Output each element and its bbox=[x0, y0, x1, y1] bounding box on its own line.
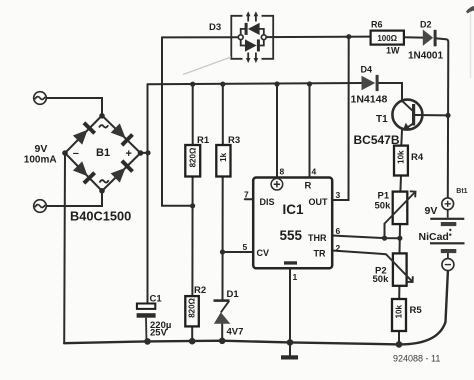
svg-text:9V: 9V bbox=[425, 205, 438, 217]
potentiometer P1 bbox=[393, 192, 408, 225]
D3 upper branch wires bbox=[241, 29, 264, 35]
D3 upper diode (points left) bbox=[245, 23, 248, 35]
svg-text:9V: 9V bbox=[35, 143, 48, 155]
AC source 1 bbox=[34, 92, 47, 105]
wire R1 top bbox=[192, 84, 194, 145]
wire bridge plus down to C1 bbox=[147, 84, 149, 303]
wire D1 bottom to ground rail bbox=[221, 324, 223, 341]
node top rail / pin3 junction bbox=[346, 34, 351, 39]
zener diode D1 bbox=[214, 299, 231, 324]
svg-text:1N4148: 1N4148 bbox=[351, 94, 388, 106]
wire ground bottom rail bbox=[64, 271, 448, 345]
svg-text:820Ω: 820Ω bbox=[188, 297, 197, 317]
wire bridge plus vertex to junction bbox=[141, 152, 149, 154]
svg-text:1: 1 bbox=[293, 272, 298, 282]
node V+ rail pin8 bbox=[274, 81, 279, 86]
wire 555 pin 4 bbox=[309, 84, 311, 178]
wire R3 bottom to pin5 node and D1 bbox=[222, 177, 224, 300]
wire D2 to battery corner bbox=[436, 38, 448, 198]
svg-text:820Ω: 820Ω bbox=[188, 147, 197, 167]
svg-text:D2: D2 bbox=[420, 20, 432, 30]
D3 box outline bbox=[231, 16, 273, 59]
node bridge junction bbox=[145, 150, 150, 155]
diode D4 bbox=[362, 76, 376, 90]
node rail R5 bbox=[396, 341, 403, 348]
wire ground stub below rail bbox=[289, 342, 291, 355]
svg-text:+: + bbox=[126, 148, 132, 160]
wire R5 bottom to ground rail bbox=[398, 331, 400, 344]
svg-text:924088 - 11: 924088 - 11 bbox=[393, 354, 440, 364]
wire D3 to R6 junction bbox=[264, 36, 371, 39]
battery long plate 1 bbox=[430, 218, 464, 220]
wire vertical from top rail down to R1/R2 node bbox=[162, 37, 193, 205]
wire 555 pin 3 out up to R6 junction bbox=[332, 37, 349, 200]
svg-text:DIS: DIS bbox=[260, 197, 275, 207]
diode D2 bbox=[423, 30, 433, 46]
svg-text:25V: 25V bbox=[150, 328, 168, 339]
scan scratch near D3 bbox=[183, 57, 231, 75]
wire top rail from node to D3 bbox=[162, 36, 241, 38]
ground bar inside pin 1 bbox=[284, 261, 297, 264]
svg-text:THR: THR bbox=[308, 233, 327, 243]
wire R4 bottom to P1 top bbox=[399, 176, 402, 192]
svg-text:D3: D3 bbox=[209, 22, 221, 33]
svg-text:100Ω: 100Ω bbox=[377, 34, 397, 43]
wire R1 bottom to R2 top bbox=[191, 177, 193, 297]
svg-text:4: 4 bbox=[312, 167, 317, 177]
node rail C1 bbox=[144, 338, 151, 345]
node bridge bottom vertex bbox=[99, 188, 105, 194]
wire AC source 1 to bridge top bbox=[46, 98, 102, 116]
resistor R6 bbox=[371, 31, 404, 45]
svg-text:R4: R4 bbox=[411, 152, 424, 163]
svg-text:D4: D4 bbox=[361, 65, 373, 75]
svg-text:TR: TR bbox=[314, 249, 326, 259]
svg-text:D1: D1 bbox=[227, 289, 240, 300]
AC source 2 bbox=[34, 200, 47, 213]
wire plus to plate bbox=[447, 210, 449, 218]
svg-text:R3: R3 bbox=[228, 135, 240, 146]
wire 555 pin 2 to P2 wiper bbox=[332, 251, 386, 255]
wire battery plus top bbox=[447, 197, 449, 199]
svg-text:8: 8 bbox=[280, 167, 285, 177]
node pin6 P1 bottom bbox=[397, 236, 402, 241]
node V+ rail pin4 bbox=[307, 81, 312, 86]
capacitor C1 bbox=[137, 304, 155, 309]
node rail D1 bbox=[219, 338, 226, 345]
bridge diode top-left bbox=[72, 121, 96, 145]
resistor R4 bbox=[394, 146, 408, 176]
wire plate to minus bbox=[447, 253, 449, 259]
wire R6 to D2 bbox=[404, 36, 423, 38]
svg-text:7: 7 bbox=[244, 190, 249, 200]
node R1/R2 junction bbox=[190, 203, 195, 208]
wire 555 pin 1 to ground rail bbox=[289, 269, 291, 343]
resistor R3 bbox=[216, 145, 230, 177]
transistor T1 bbox=[392, 100, 422, 131]
svg-text:R5: R5 bbox=[410, 305, 423, 316]
battery Bt1 bbox=[430, 198, 465, 271]
battery short plate 2 bbox=[441, 249, 457, 253]
wire transistor base to battery line bbox=[415, 114, 448, 116]
bridge diode bottom-right bbox=[110, 159, 134, 183]
battery long plate 2 bbox=[430, 242, 465, 244]
svg-text:50k: 50k bbox=[373, 274, 390, 285]
potentiometer P2 bbox=[393, 253, 407, 285]
wire emitter to R4 top bbox=[400, 130, 403, 146]
svg-text:Bt1: Bt1 bbox=[456, 188, 467, 195]
wire P1 wiper link bbox=[384, 224, 386, 239]
battery minus terminal circle bbox=[442, 259, 454, 271]
wire 555 pin 7 stub bbox=[245, 198, 253, 200]
svg-text:R6: R6 bbox=[371, 20, 383, 30]
wire bridge minus vertex down to ground rail bbox=[63, 153, 66, 343]
svg-text:10k: 10k bbox=[397, 150, 406, 164]
svg-text:NiCad: NiCad bbox=[419, 231, 449, 243]
svg-text:R: R bbox=[305, 181, 312, 192]
ground symbol below rail bbox=[281, 355, 298, 359]
svg-text:5: 5 bbox=[243, 242, 248, 252]
node rail pin1 bbox=[287, 339, 294, 346]
D3 arrow down 2 bbox=[255, 53, 257, 60]
svg-text:10k: 10k bbox=[395, 304, 404, 318]
wire R3 top bbox=[222, 84, 224, 145]
label ~ bottom bbox=[100, 180, 109, 183]
svg-text:B1: B1 bbox=[96, 147, 110, 159]
bridge diode top-right bbox=[110, 123, 134, 147]
svg-text:1W: 1W bbox=[386, 46, 400, 56]
svg-text:IC1: IC1 bbox=[283, 202, 305, 217]
IC1 555 timer box bbox=[253, 178, 332, 269]
resistor R5 bbox=[392, 299, 406, 331]
D3 arrowheads bbox=[246, 11, 251, 16]
svg-text:4V7: 4V7 bbox=[227, 327, 244, 338]
node V+ rail R3 bbox=[220, 82, 225, 87]
label ~ top bbox=[99, 125, 108, 128]
svg-text:T1: T1 bbox=[376, 114, 388, 125]
node bridge top vertex bbox=[99, 113, 105, 119]
svg-text:–: – bbox=[73, 148, 79, 160]
svg-text:C1: C1 bbox=[150, 294, 163, 305]
bridge rectifier B1 diamond bbox=[65, 116, 141, 192]
D3 arrow up 2 bbox=[255, 15, 257, 22]
wire P2 bottom to R5 top bbox=[398, 286, 400, 299]
node V+ rail R1 bbox=[190, 82, 195, 87]
svg-text:R1: R1 bbox=[197, 135, 210, 146]
svg-text:R2: R2 bbox=[194, 285, 206, 296]
wire P1 bottom to node bbox=[399, 224, 401, 238]
svg-text:CV: CV bbox=[257, 248, 270, 258]
D3 lower branch wires bbox=[241, 40, 264, 46]
scan mark top right corner bbox=[466, 6, 474, 14]
D3 lower diode (points right) bbox=[245, 39, 257, 51]
plus symbol inside pin 8 bbox=[271, 178, 283, 190]
svg-text:50k: 50k bbox=[375, 201, 392, 212]
svg-text:1N4001: 1N4001 bbox=[408, 51, 443, 62]
svg-text:100mA: 100mA bbox=[24, 155, 57, 166]
wire 555 pin 6 to P1 node bbox=[332, 236, 400, 239]
resistor R1 bbox=[185, 145, 200, 177]
battery plus terminal circle bbox=[442, 198, 454, 210]
bridge diode bottom-left bbox=[72, 161, 96, 185]
node pin5 zener bbox=[220, 249, 225, 254]
wire 555 pin 8 bbox=[276, 84, 278, 178]
node bridge left vertex bbox=[62, 150, 68, 156]
node pin6 P1 wiper bbox=[382, 236, 387, 241]
resistor R2 bbox=[185, 296, 199, 326]
wire AC source 2 to bridge bottom bbox=[46, 191, 102, 207]
wire D4 cathode to transistor collector bbox=[378, 83, 402, 101]
node rail R2 bbox=[189, 338, 196, 345]
svg-text:6: 6 bbox=[336, 226, 341, 236]
svg-text:OUT: OUT bbox=[309, 197, 329, 207]
svg-text:555: 555 bbox=[280, 228, 303, 243]
node bridge right vertex bbox=[138, 150, 144, 156]
LED D3 assembly bbox=[231, 15, 273, 60]
D3 pin circles bbox=[238, 35, 243, 40]
svg-text:1k: 1k bbox=[219, 152, 228, 161]
wire 555 pin 5 stub bbox=[223, 251, 254, 253]
svg-text:3: 3 bbox=[336, 190, 341, 200]
battery short plate 1 bbox=[441, 222, 457, 226]
D3 arrow up 1 bbox=[247, 15, 249, 22]
svg-text:2: 2 bbox=[336, 243, 341, 253]
D3 arrow down 1 bbox=[247, 53, 249, 60]
node base battery bbox=[445, 113, 450, 118]
wire node to P2 top bbox=[399, 238, 401, 253]
wire R2 bottom to ground rail bbox=[191, 326, 193, 341]
wire V+ rail y=84 bbox=[148, 83, 362, 84]
svg-text:B40C1500: B40C1500 bbox=[70, 209, 131, 224]
